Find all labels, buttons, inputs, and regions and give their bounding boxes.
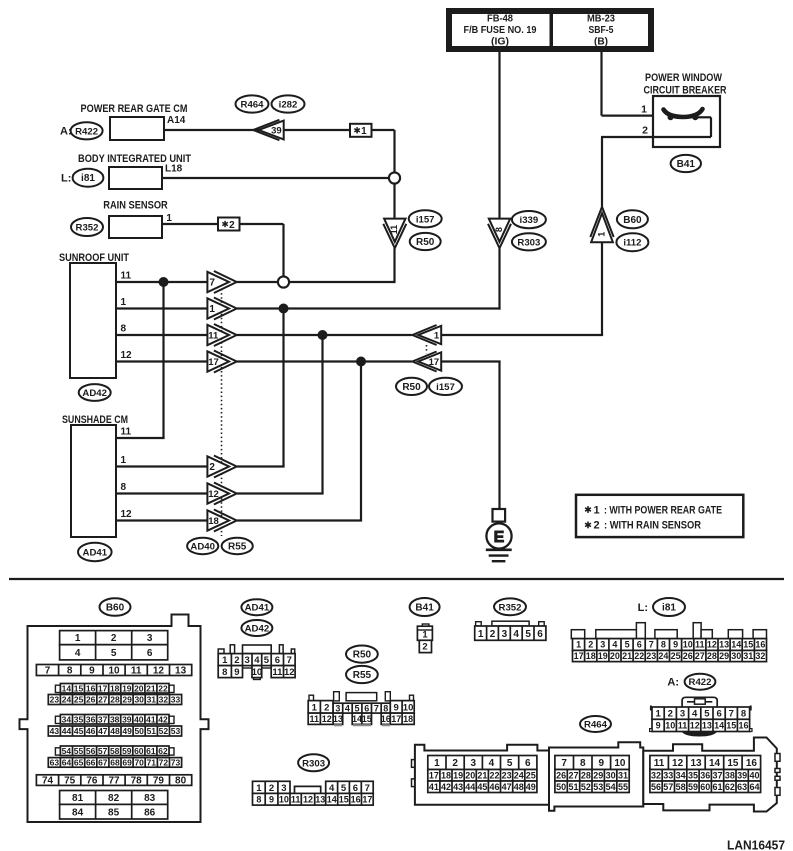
wire L18 row from body integrated unit to junction circle <box>162 177 390 179</box>
svg-text:AD41: AD41 <box>83 548 108 559</box>
connector pair 11 i157/R50 <box>383 219 406 249</box>
svg-text:48: 48 <box>110 726 120 736</box>
connector R422 pins 9-16 <box>652 719 750 731</box>
B60 pins 43-53 <box>48 726 181 736</box>
svg-text:R50: R50 <box>416 237 435 248</box>
svg-text:9: 9 <box>89 666 95 677</box>
svg-text:i157: i157 <box>416 214 435 225</box>
svg-text:R422: R422 <box>75 126 98 137</box>
svg-text:49: 49 <box>526 782 536 792</box>
svg-text:3: 3 <box>245 655 250 666</box>
svg-text:R352: R352 <box>499 602 522 613</box>
connector R422 bottom key <box>682 732 718 737</box>
connector 2 AD40/R55 <box>207 456 236 478</box>
svg-text:12: 12 <box>303 795 313 805</box>
svg-text:18: 18 <box>441 771 451 781</box>
svg-text:2: 2 <box>452 758 458 769</box>
separator line <box>9 578 784 580</box>
svg-text:44: 44 <box>465 782 475 792</box>
svg-text:57: 57 <box>98 746 108 756</box>
svg-text:44: 44 <box>62 726 72 736</box>
svg-text:1: 1 <box>596 232 606 237</box>
oval AD40 <box>187 538 218 554</box>
ground bars <box>486 548 512 551</box>
svg-text:15: 15 <box>727 758 739 769</box>
svg-text:13: 13 <box>690 758 702 769</box>
wire MB-23 B feed x601.5 <box>600 52 602 116</box>
svg-text:1: 1 <box>209 304 215 315</box>
connector R303 pins 4-7 <box>326 781 374 793</box>
svg-text:15: 15 <box>743 640 753 650</box>
svg-text:31: 31 <box>743 651 753 661</box>
svg-text:39: 39 <box>122 714 132 724</box>
svg-text:59: 59 <box>688 782 698 792</box>
note box *1 *2 legend <box>576 495 743 537</box>
svg-text:2: 2 <box>668 709 673 720</box>
svg-text:24: 24 <box>514 771 524 781</box>
svg-text:66: 66 <box>86 758 96 768</box>
B60 pins 4-6 <box>60 645 168 660</box>
wire sunshade pin12 row <box>116 519 209 521</box>
connector AD41/AD42 top tabs <box>218 649 224 654</box>
svg-text:67: 67 <box>98 758 108 768</box>
connector R464 housing right shell <box>643 738 777 812</box>
svg-text:i81: i81 <box>81 173 95 184</box>
oval R464 <box>236 95 269 112</box>
svg-text:8: 8 <box>580 758 586 769</box>
oval B60 upper <box>617 210 648 228</box>
svg-text:2: 2 <box>642 125 648 137</box>
svg-text:F/B FUSE NO. 19: F/B FUSE NO. 19 <box>464 24 537 36</box>
svg-text:83: 83 <box>144 793 156 804</box>
svg-text:55: 55 <box>618 782 628 792</box>
svg-text:1: 1 <box>121 455 127 466</box>
svg-text:55: 55 <box>74 746 84 756</box>
svg-text:71: 71 <box>147 758 157 768</box>
svg-text:58: 58 <box>110 746 120 756</box>
svg-text:34: 34 <box>62 714 72 724</box>
svg-text:4: 4 <box>612 640 617 650</box>
B60 pins 7-13 <box>36 665 191 676</box>
body integrated unit box <box>109 167 162 189</box>
connector i81 pins 1-16 <box>573 639 767 651</box>
wire A14 row from power rear gate to *1 and corner <box>164 129 350 131</box>
svg-text:77: 77 <box>108 776 120 787</box>
connector R464 housing left cap <box>412 760 416 768</box>
svg-text:29: 29 <box>593 771 603 781</box>
connector pair 1 R50/i157 lower <box>412 325 441 345</box>
svg-text:5: 5 <box>341 783 347 794</box>
wire sunroof pin1 row <box>116 307 209 309</box>
connector R50/R55 pins 11-13 <box>308 713 343 724</box>
svg-text:8: 8 <box>383 703 388 713</box>
svg-text:4: 4 <box>489 758 495 769</box>
svg-text:56: 56 <box>86 746 96 756</box>
svg-text:46: 46 <box>489 782 499 792</box>
svg-text:38: 38 <box>110 714 120 724</box>
connector pair 39 R464/i282 <box>253 120 284 140</box>
svg-text:1: 1 <box>121 297 127 308</box>
wire ground drop x499.5 <box>498 362 500 509</box>
junction dot row4 <box>356 357 366 367</box>
svg-text:11: 11 <box>121 427 132 438</box>
connector R464 pins 26-31 <box>555 770 629 782</box>
svg-text:7: 7 <box>649 640 654 650</box>
svg-text:9: 9 <box>269 795 274 805</box>
svg-text:1: 1 <box>594 504 600 516</box>
svg-text:6: 6 <box>716 709 721 720</box>
svg-text:(B): (B) <box>594 36 608 48</box>
connector R464 right cap notches <box>775 754 780 762</box>
svg-text:3: 3 <box>502 629 508 640</box>
svg-text:74: 74 <box>42 776 54 787</box>
breaker internal wire <box>695 116 711 118</box>
svg-text:12: 12 <box>672 758 684 769</box>
svg-text:7: 7 <box>729 709 734 720</box>
svg-text:9: 9 <box>673 640 678 650</box>
svg-text:B41: B41 <box>415 603 434 614</box>
connector R464 pins 7-10 <box>555 756 629 770</box>
connector 18 AD40/R55 <box>207 510 236 532</box>
oval i282 <box>272 95 305 112</box>
svg-text:37: 37 <box>98 714 108 724</box>
svg-text:43: 43 <box>453 782 463 792</box>
wire sunroof pin11 row <box>116 281 209 283</box>
svg-text:8: 8 <box>256 795 261 805</box>
svg-text:63: 63 <box>50 758 60 768</box>
connector 17 AD40/R55 <box>207 351 236 373</box>
svg-text:11: 11 <box>131 666 142 677</box>
svg-text:62: 62 <box>725 782 735 792</box>
svg-text:53: 53 <box>171 726 181 736</box>
svg-text:10: 10 <box>683 640 693 650</box>
connector R50/R55 feet <box>334 724 390 726</box>
svg-text:69: 69 <box>122 758 132 768</box>
svg-text:14: 14 <box>714 721 724 731</box>
svg-text:59: 59 <box>122 746 132 756</box>
svg-text:8: 8 <box>67 666 73 677</box>
svg-text:2: 2 <box>229 220 235 231</box>
rain sensor box <box>109 216 162 238</box>
svg-text:68: 68 <box>110 758 120 768</box>
connector R422 feet <box>650 729 652 732</box>
svg-text:16: 16 <box>381 714 391 724</box>
svg-text:6: 6 <box>275 655 280 666</box>
svg-text:32: 32 <box>651 771 661 781</box>
connector pair 1 B60/i112 <box>590 207 613 242</box>
svg-text:R50: R50 <box>402 382 421 393</box>
svg-text:7: 7 <box>45 666 51 677</box>
connector 12 AD40/R55 <box>207 483 236 505</box>
junction dot row3 <box>318 330 328 340</box>
connector 1 AD40/R55 <box>207 298 236 320</box>
connector R50/R55 pins 9-10 <box>390 701 414 714</box>
svg-text:2: 2 <box>324 702 329 713</box>
svg-text:34: 34 <box>676 771 686 781</box>
wire row4 from connector to R50/i157 pair <box>237 360 412 362</box>
svg-text:L:: L: <box>61 173 71 185</box>
svg-text:27: 27 <box>98 695 108 705</box>
svg-text:43: 43 <box>50 726 60 736</box>
svg-text:10: 10 <box>279 795 289 805</box>
svg-text:79: 79 <box>153 776 165 787</box>
svg-text:22: 22 <box>489 771 499 781</box>
svg-text:1: 1 <box>478 629 484 640</box>
svg-text:B41: B41 <box>677 159 696 170</box>
svg-text:28: 28 <box>581 771 591 781</box>
svg-text:10: 10 <box>665 721 675 731</box>
svg-text:L:: L: <box>638 602 648 614</box>
svg-text:18: 18 <box>208 516 219 527</box>
svg-text:52: 52 <box>581 782 591 792</box>
svg-text:76: 76 <box>86 776 98 787</box>
svg-text:17: 17 <box>391 714 401 724</box>
svg-text:1: 1 <box>312 702 318 713</box>
svg-text:45: 45 <box>74 726 84 736</box>
svg-text:9: 9 <box>394 702 399 713</box>
svg-text:2: 2 <box>111 633 117 644</box>
ground E terminal square <box>493 509 506 522</box>
oval R55 schematic <box>222 538 253 554</box>
svg-text:35: 35 <box>688 771 698 781</box>
svg-text:5: 5 <box>507 758 513 769</box>
oval i339 <box>512 211 546 228</box>
oval R50 connector view <box>346 646 378 663</box>
svg-text:E: E <box>494 529 505 546</box>
svg-text:3: 3 <box>471 758 477 769</box>
svg-text:52: 52 <box>159 726 169 736</box>
svg-text:18: 18 <box>110 683 120 693</box>
svg-text:R55: R55 <box>228 542 247 553</box>
svg-text:24: 24 <box>658 651 668 661</box>
svg-text:12: 12 <box>707 640 717 650</box>
connector AD41/AD42 pins 1-7 <box>218 654 295 666</box>
svg-text:54: 54 <box>62 746 72 756</box>
svg-text:7: 7 <box>374 703 379 713</box>
svg-text:40: 40 <box>134 714 144 724</box>
svg-text:R55: R55 <box>353 670 372 681</box>
svg-text:3: 3 <box>281 783 286 794</box>
svg-text:11: 11 <box>310 714 320 724</box>
svg-text:1: 1 <box>576 640 581 650</box>
svg-text:11: 11 <box>272 667 283 678</box>
svg-text:RAIN SENSOR: RAIN SENSOR <box>103 200 168 212</box>
svg-text:1: 1 <box>655 709 661 720</box>
svg-text:B60: B60 <box>623 215 642 226</box>
B60 pins 23-33 <box>48 695 181 705</box>
svg-text:64: 64 <box>749 782 759 792</box>
svg-text:4: 4 <box>254 655 260 666</box>
connector R464 pins 41-49 <box>428 781 537 793</box>
svg-text:2: 2 <box>594 520 600 532</box>
svg-text:4: 4 <box>329 783 335 794</box>
svg-text:3: 3 <box>147 633 153 644</box>
svg-text:: WITH RAIN SENSOR: : WITH RAIN SENSOR <box>604 520 701 532</box>
power window circuit breaker box B41 <box>653 96 720 147</box>
option box *2 <box>218 218 240 231</box>
svg-text:26: 26 <box>86 695 96 705</box>
connector AD41/AD42 pin 10 <box>254 676 261 680</box>
svg-text:70: 70 <box>134 758 144 768</box>
oval R422 connector view <box>685 674 716 690</box>
svg-text:8: 8 <box>222 667 227 678</box>
oval R50 upper <box>410 233 441 250</box>
svg-text:8: 8 <box>121 482 127 493</box>
connector AD41/AD42 lower shelf lines <box>243 667 253 669</box>
svg-text:19: 19 <box>122 683 132 693</box>
svg-text:36: 36 <box>700 771 710 781</box>
svg-text:10: 10 <box>614 758 626 769</box>
junction circle rain option row1 <box>278 276 289 287</box>
svg-text:13: 13 <box>333 714 343 724</box>
svg-text:16: 16 <box>351 795 361 805</box>
svg-text:21: 21 <box>146 683 156 693</box>
svg-text:17: 17 <box>208 357 219 368</box>
svg-text:17: 17 <box>429 357 440 368</box>
svg-text:15: 15 <box>362 714 372 724</box>
svg-text:4: 4 <box>513 629 519 640</box>
connector R50/R55 pins 1-2 <box>308 701 333 714</box>
svg-text:28: 28 <box>707 651 717 661</box>
svg-text:i112: i112 <box>623 238 641 249</box>
oval R352 <box>71 218 103 236</box>
connector R303 bridge <box>295 786 321 793</box>
connector R50/R55 top tabs <box>309 695 314 701</box>
option box *1 <box>350 124 372 137</box>
svg-text:47: 47 <box>502 782 512 792</box>
junction circle L18/*1 <box>389 172 400 183</box>
svg-text:15: 15 <box>74 683 84 693</box>
svg-text:12: 12 <box>690 721 700 731</box>
B60 pins 84-86 <box>60 804 168 819</box>
svg-text:41: 41 <box>429 782 439 792</box>
svg-text:13: 13 <box>702 721 712 731</box>
connector R464 pins 11-16 <box>650 756 761 770</box>
connector R464 pins 32-40 <box>650 770 761 782</box>
svg-text:7: 7 <box>561 758 567 769</box>
svg-text:R50: R50 <box>353 650 372 661</box>
breaker element <box>664 109 703 117</box>
svg-text:86: 86 <box>144 807 156 818</box>
svg-text:12: 12 <box>322 714 332 724</box>
svg-text:12: 12 <box>208 489 219 500</box>
svg-text:4: 4 <box>345 703 350 713</box>
svg-text:11: 11 <box>121 271 132 282</box>
svg-text:2: 2 <box>234 655 239 666</box>
svg-text:62: 62 <box>158 746 168 756</box>
svg-text:10: 10 <box>403 702 414 713</box>
svg-text:30: 30 <box>731 651 741 661</box>
oval i157 upper <box>409 210 442 227</box>
svg-text:45: 45 <box>477 782 487 792</box>
connector R464 pins 50-55 <box>555 781 629 793</box>
svg-text:26: 26 <box>683 651 693 661</box>
svg-text:11: 11 <box>389 225 399 235</box>
svg-text:R464: R464 <box>241 100 265 111</box>
svg-text:6: 6 <box>537 629 543 640</box>
svg-text:65: 65 <box>74 758 84 768</box>
svg-text:64: 64 <box>62 758 72 768</box>
svg-text:4: 4 <box>75 648 81 659</box>
wire sunshade row12 to riser <box>237 519 362 521</box>
svg-text:1: 1 <box>422 630 428 641</box>
svg-text:16: 16 <box>86 683 96 693</box>
svg-text:37: 37 <box>712 771 722 781</box>
svg-text:25: 25 <box>526 771 536 781</box>
svg-text:A:: A: <box>667 676 679 688</box>
svg-text:2: 2 <box>490 629 496 640</box>
svg-text:16: 16 <box>755 640 765 650</box>
svg-text:23: 23 <box>646 651 656 661</box>
svg-text:29: 29 <box>122 695 132 705</box>
wire sunshade row1 to riser <box>237 465 285 467</box>
svg-text:9: 9 <box>234 667 239 678</box>
B60 pins 81-83 <box>60 791 168 805</box>
connector R352 top tabs <box>476 622 482 626</box>
oval AD42 schematic <box>79 384 111 401</box>
svg-text:13: 13 <box>719 640 729 650</box>
sunroof unit box <box>70 263 116 378</box>
power rear gate CM box <box>110 117 164 140</box>
svg-text:31: 31 <box>147 695 157 705</box>
svg-text:80: 80 <box>175 776 187 787</box>
connector 11 AD40/R55 <box>207 324 236 346</box>
svg-text:1: 1 <box>641 104 647 116</box>
svg-text:29: 29 <box>719 651 729 661</box>
wire breaker pin2 exit <box>601 136 655 138</box>
oval i157 lower <box>429 378 462 395</box>
svg-text:1: 1 <box>256 783 262 794</box>
svg-text:17: 17 <box>98 683 108 693</box>
svg-text:8: 8 <box>494 227 504 232</box>
svg-text:1: 1 <box>361 126 367 137</box>
connector R303 pins 8-17 <box>253 793 374 805</box>
svg-text:5: 5 <box>525 629 531 640</box>
svg-text:23: 23 <box>50 695 60 705</box>
svg-text:35: 35 <box>74 714 84 724</box>
connector pair 8 i339/R303 <box>488 219 511 249</box>
svg-text:47: 47 <box>98 726 108 736</box>
svg-text:4: 4 <box>692 709 698 720</box>
svg-text:30: 30 <box>606 771 616 781</box>
svg-text:20: 20 <box>465 771 475 781</box>
svg-text:78: 78 <box>131 776 143 787</box>
svg-text:8: 8 <box>661 640 666 650</box>
svg-text:56: 56 <box>651 782 661 792</box>
connector pair 17 R50/i157 lower <box>412 352 441 372</box>
svg-text:CIRCUIT BREAKER: CIRCUIT BREAKER <box>644 85 727 97</box>
svg-text:9: 9 <box>599 758 605 769</box>
svg-text:49: 49 <box>122 726 132 736</box>
oval R55 connector view <box>346 666 378 683</box>
svg-text:30: 30 <box>134 695 144 705</box>
svg-text:i282: i282 <box>279 100 298 111</box>
connector B60 casing <box>20 615 209 823</box>
connector AD41/AD42 pins 11-12 <box>271 666 295 678</box>
svg-text:A14: A14 <box>167 115 186 126</box>
svg-text:61: 61 <box>712 782 722 792</box>
svg-text:R303: R303 <box>517 237 540 248</box>
connector R464 pins 17-25 <box>428 770 537 782</box>
connector R422 end ticks <box>650 706 652 711</box>
connector R50/R55 pins 16-18 <box>381 713 414 724</box>
svg-text:LAN16457: LAN16457 <box>727 838 785 851</box>
svg-text:26: 26 <box>556 771 566 781</box>
svg-text:14: 14 <box>709 758 721 769</box>
svg-text:1: 1 <box>434 330 440 341</box>
svg-text:13: 13 <box>175 666 187 677</box>
oval B60 connector view <box>100 598 131 616</box>
